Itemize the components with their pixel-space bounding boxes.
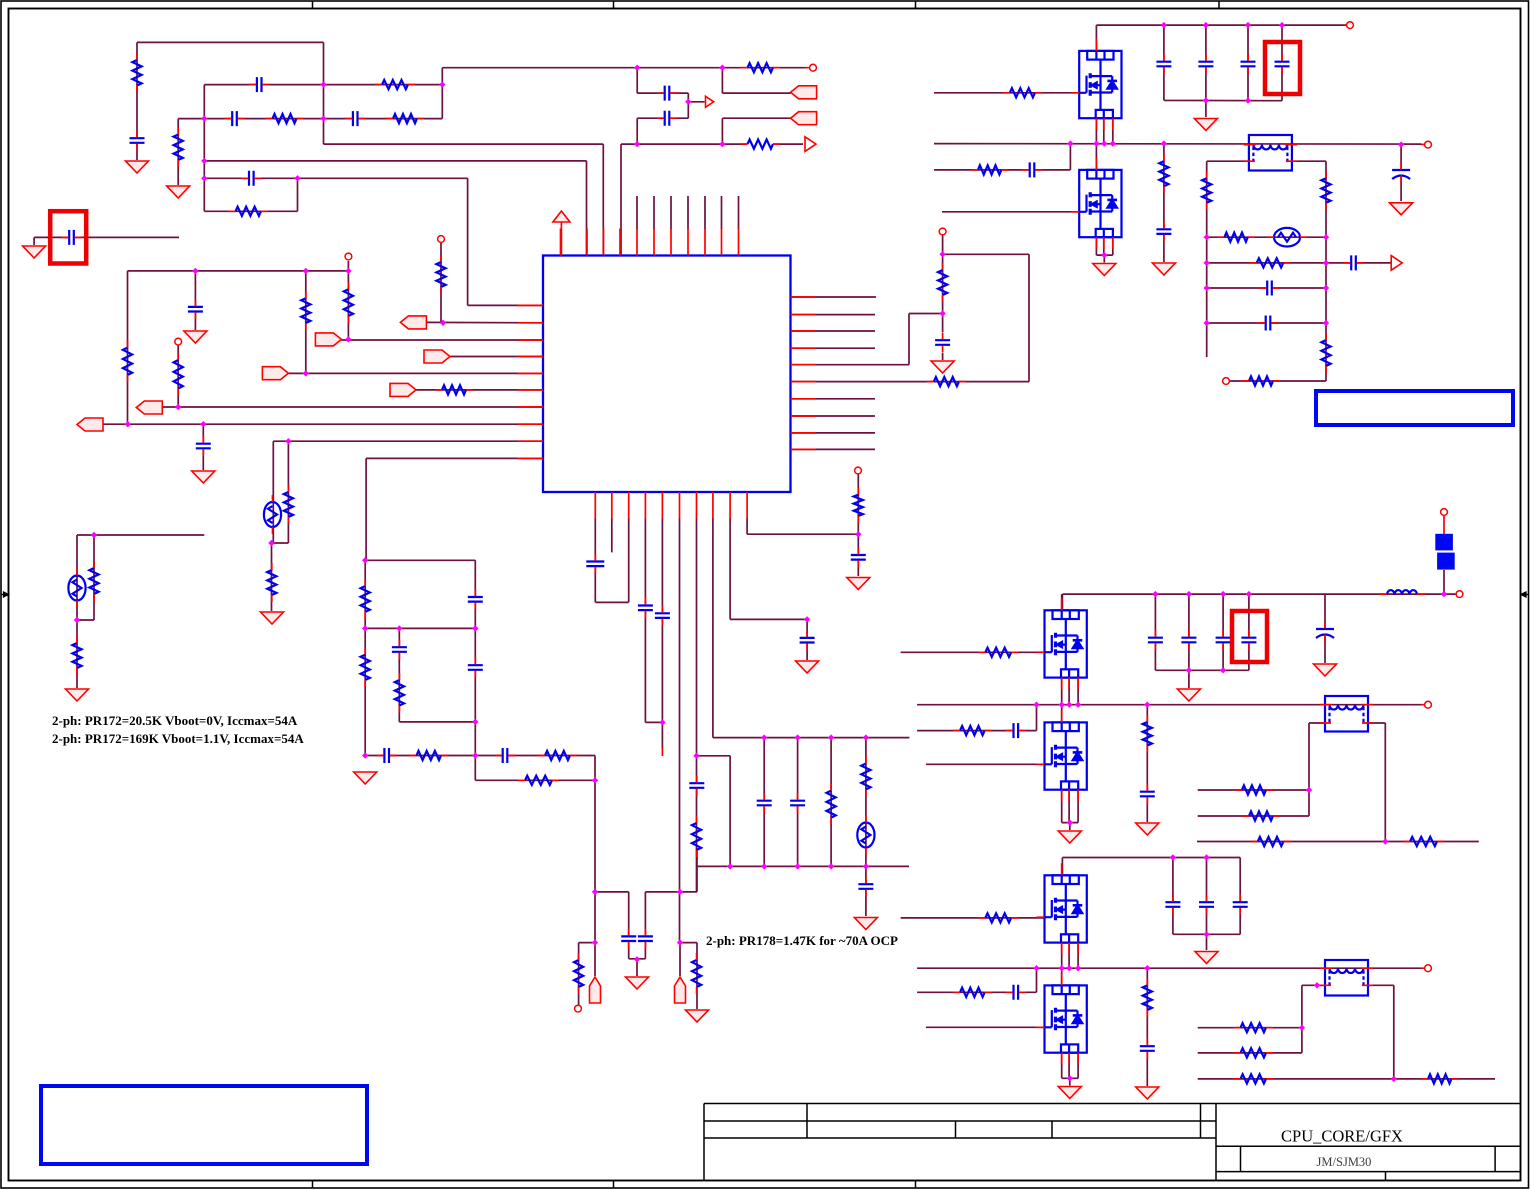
- svg-text:2-ph: PR178=1.47K for ~70A OCP: 2-ph: PR178=1.47K for ~70A OCP: [706, 933, 898, 948]
- svg-text:2-ph: PR172=20.5K Vboot=0V, Ic: 2-ph: PR172=20.5K Vboot=0V, Iccmax=54A: [52, 713, 298, 728]
- svg-text:2-ph: PR172=169K Vboot=1.1V,: 2-ph: PR172=169K Vboot=1.1V, Iccmax=54A: [52, 731, 304, 746]
- svg-text:JM/SJM30: JM/SJM30: [1317, 1155, 1372, 1169]
- svg-text:CPU_CORE/GFX: CPU_CORE/GFX: [1281, 1127, 1403, 1146]
